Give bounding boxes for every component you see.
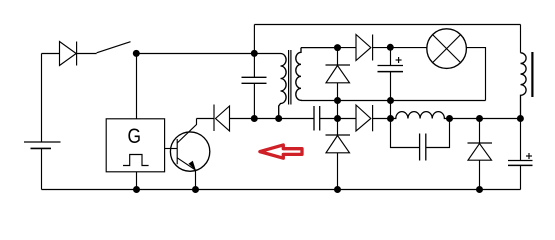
vertical diode D6 (node B to ground rail) — [326, 119, 351, 190]
node B: mid rail at x=337 — [334, 115, 341, 122]
wire: lamp right side to return corner — [466, 48, 485, 101]
diode D4 (series, pointing right) — [356, 35, 373, 61]
wire: node B to diode D5 — [338, 118, 357, 120]
vertical diode D3 (secondary top to bottom rail) — [326, 48, 351, 101]
wire: feed node up to top bus — [253, 25, 255, 78]
wire: C2 node down to mid rail — [390, 101, 392, 119]
node: ground rail at diode D7 — [476, 186, 483, 193]
capacitor C4 (parallel with L1) — [391, 119, 450, 161]
wire: battery to bottom ground rail — [41, 148, 43, 189]
node: ground rail at generator — [133, 186, 140, 193]
node: mid rail at x=449 — [446, 115, 453, 122]
inductor L1 (filter choke on mid rail) — [391, 112, 450, 119]
secondary bottom rail — [301, 100, 486, 102]
wire: switch junction down to generator box — [136, 54, 138, 119]
capacitor C1 (across primary) — [242, 77, 267, 83]
red arrow (energy flow direction) — [260, 145, 302, 158]
wire: feed node to transformer primary top — [254, 53, 280, 55]
diode D5 (mid rail, pointing right) — [356, 105, 373, 131]
node: transformer primary bottom junction — [275, 115, 282, 122]
node: secondary top / diode D3 junction — [334, 44, 341, 51]
battery BT1 — [24, 142, 61, 148]
ground rail (bottom wire) — [42, 189, 521, 191]
wire: node to diode D7 junction — [450, 118, 480, 120]
wire: rail from switch junction to primary feed node — [136, 53, 254, 55]
node A: snubber capacitor junction on mid rail — [251, 115, 258, 122]
node: mid rail right end — [517, 115, 524, 122]
diode D2 (pointing left) — [214, 105, 230, 132]
transformer T1 core — [289, 50, 291, 105]
wire: left vertical from top-left rail down to battery — [41, 54, 43, 143]
generator block G1 — [106, 119, 164, 172]
capacitor C3 (series, on mid rail) — [314, 106, 320, 131]
node: bottom rail at diode D3 — [334, 97, 341, 104]
node C: mid rail at x=390 — [387, 115, 394, 122]
wire: D3 node down to mid rail — [337, 101, 339, 119]
wire: collector corner to diode D2 cathode — [197, 118, 215, 120]
wire: diode D5 cathode to node C — [373, 118, 391, 120]
wire: diode D1 cathode to switch pivot — [77, 53, 97, 55]
transformer T1 primary winding — [279, 53, 286, 118]
wire: diode D4 cathode to smoothing node — [373, 47, 391, 49]
lamp HL1 — [427, 29, 467, 69]
wire: generator output to transistor base — [165, 148, 178, 150]
wire: secondary top stub to rectifier node — [301, 47, 338, 49]
node: switch contact junction — [133, 50, 140, 57]
mid rail: primary bottom node to series capacitor — [279, 118, 314, 120]
transistor Q1 — [170, 119, 209, 190]
node: smoothing capacitor top — [387, 44, 394, 51]
node: bottom rail at capacitor C2 — [387, 97, 394, 104]
capacitor C5 (electrolytic, output) — [508, 119, 533, 190]
wire: capacitor C3 to node B — [320, 118, 338, 120]
wire: mid rail end segment — [480, 118, 521, 120]
capacitor C2 (electrolytic, smoothing) — [378, 48, 404, 101]
wire: capacitor C1 bottom to node A — [253, 83, 255, 118]
node: primary feed junction — [251, 50, 258, 57]
inductor L2 (right-hand choke with core) — [521, 25, 533, 119]
transformer T1 secondary winding — [296, 48, 301, 101]
wire: diode D2 to node A — [230, 118, 255, 120]
wire: generator box bottom to ground rail — [136, 172, 138, 190]
vertical diode D7 (mid rail to ground rail) — [468, 119, 493, 190]
node: mid rail at x=479 — [476, 115, 483, 122]
svg-text:G: G — [127, 125, 141, 148]
switch S1 (open blade) — [97, 42, 131, 53]
node: ground rail at emitter — [192, 186, 199, 193]
wire: smoothing node to lamp — [390, 47, 427, 49]
wire: node A to primary bottom node — [254, 118, 278, 120]
top wire: long bus from feed node to right-hand choke — [254, 24, 520, 26]
diode D1 — [60, 42, 77, 66]
wire: secondary top node to diode D4 — [338, 47, 357, 49]
node: ground rail at diode D6 — [334, 186, 341, 193]
wire: top-left rail to diode D1 anode — [42, 53, 60, 55]
